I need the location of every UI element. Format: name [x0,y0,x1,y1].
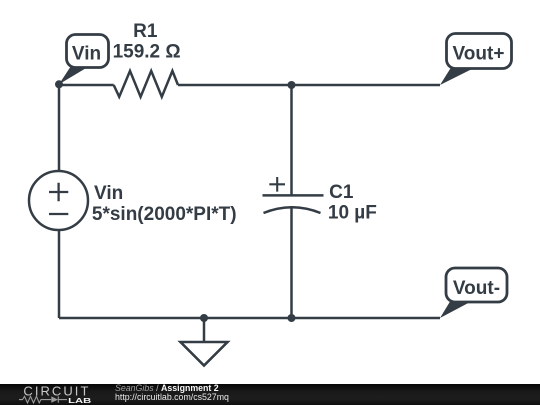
junction node dot bottom of capacitor branch [288,314,296,322]
wire from top rail down to capacitor C1 [290,85,293,195]
svg-text:159.2 Ω: 159.2 Ω [113,42,181,63]
svg-text:Vin: Vin [72,43,101,64]
CircuitLab logo diode symbol [51,396,58,402]
wire from capacitor C1 down to bottom rail [290,206,293,318]
net flag Vin pointer [59,68,87,85]
junction node dot at ground tap [200,314,208,322]
footer bar background [0,384,540,405]
net flag Vout+ pointer [440,68,475,86]
svg-text:C1: C1 [329,182,354,203]
net flag Vout- pointer [440,301,473,318]
CircuitLab logo resistor-diode squiggle [19,396,51,403]
ground symbol triangle [181,342,228,366]
svg-text:Vout-: Vout- [453,278,500,299]
net flag Vout- box [446,268,507,302]
wire top-left from node Vin to resistor R1 [59,84,114,87]
junction node dot at Vin top-left [55,80,63,88]
voltage source plus sign [49,183,68,202]
svg-text:R1: R1 [133,21,158,42]
resistor R1 zigzag body [114,71,178,97]
svg-text:Vin: Vin [94,183,123,204]
junction node dot top of capacitor branch [288,81,296,89]
capacitor C1 top plate [263,194,324,197]
voltage source minus sign [49,213,68,215]
svg-text:LAB: LAB [68,396,92,405]
wire left vertical from source V1 bottom to bottom rail [58,229,61,318]
svg-text:Vout+: Vout+ [453,43,505,64]
wire bottom rail [59,317,440,320]
svg-text:10 µF: 10 µF [328,203,377,224]
ground stub wire [203,318,206,342]
wire from resistor R1 to Vout+ flag [178,84,440,87]
voltage source V1 circle [29,171,88,230]
net flag Vout+ box [447,34,512,69]
capacitor C1 curved bottom plate [264,207,321,213]
net flag Vin box [67,35,109,68]
svg-text:http://circuitlab.com/cs527mq: http://circuitlab.com/cs527mq [115,392,229,402]
wire left vertical from node Vin to source V1 top [58,85,61,172]
svg-text:5*sin(2000*PI*T): 5*sin(2000*PI*T) [92,204,237,225]
capacitor C1 polarity plus sign [269,177,285,192]
